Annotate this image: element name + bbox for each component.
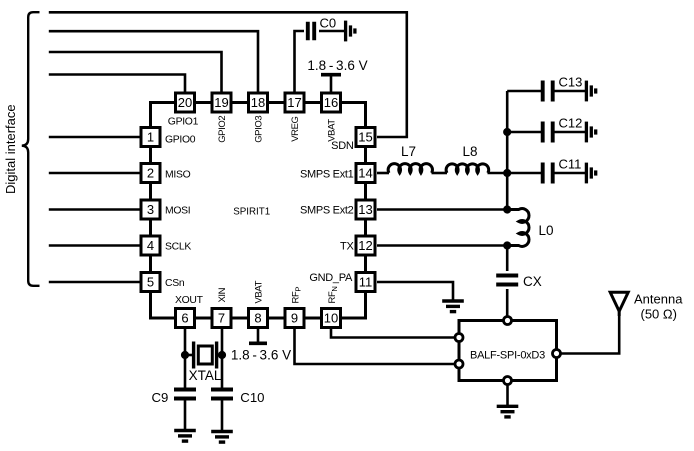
wire L0 bottom to CX <box>506 246 509 272</box>
svg-text:C13: C13 <box>559 75 583 90</box>
svg-text:4: 4 <box>147 238 154 253</box>
pin 17 <box>285 93 304 112</box>
svg-text:GPIO3: GPIO3 <box>253 116 264 143</box>
svg-text:GPIO0: GPIO0 <box>165 135 196 146</box>
wire pin 17 VREG up to C0 <box>295 31 305 92</box>
wire C13 branch <box>507 90 541 93</box>
pin 16 <box>322 93 341 112</box>
wire C11 to ground <box>554 172 586 175</box>
wire C12 to ground <box>554 131 586 134</box>
svg-text:C10: C10 <box>240 390 264 405</box>
junction spine / TX / L0 bottom <box>503 241 511 249</box>
pin 20 <box>176 93 195 112</box>
svg-text:10: 10 <box>324 311 338 326</box>
junction spine / C11 / L7-L8 <box>503 169 511 177</box>
wire L8 to spine junction <box>488 172 508 175</box>
pin 15 <box>356 128 375 147</box>
svg-text:CX: CX <box>523 274 542 289</box>
junction spine / SMPS Ext2 / L0 top <box>503 205 511 213</box>
pin 10 <box>322 309 341 328</box>
balun pin input 1 (upper left) <box>455 334 463 342</box>
svg-text:GPIO2: GPIO2 <box>217 116 228 143</box>
pin 3 <box>141 200 160 219</box>
svg-text:6: 6 <box>181 311 188 326</box>
ground at C12 <box>586 122 595 143</box>
svg-text:Antenna: Antenna <box>634 292 683 307</box>
svg-text:CSn: CSn <box>165 278 185 289</box>
svg-text:C9: C9 <box>151 390 168 405</box>
svg-text:C0: C0 <box>320 16 337 31</box>
svg-text:8: 8 <box>254 311 261 326</box>
ground at C11 <box>586 163 595 184</box>
svg-text:17: 17 <box>287 95 301 110</box>
wire pin 14 SMPS Ext1 to L7 <box>377 172 389 175</box>
wire spine vertical C13 to L0 top <box>506 91 509 210</box>
wire pin 10 RFN to balun upper input <box>331 329 454 338</box>
svg-text:VREG: VREG <box>290 116 301 141</box>
svg-text:3: 3 <box>147 202 154 217</box>
pin 13 <box>356 200 375 219</box>
svg-text:16: 16 <box>324 95 338 110</box>
wire C13 to ground <box>554 90 586 93</box>
wire XTAL left stub <box>185 354 192 357</box>
svg-text:12: 12 <box>358 238 372 253</box>
svg-text:11: 11 <box>359 275 373 290</box>
svg-text:14: 14 <box>358 166 372 181</box>
wire between L7 and L8 <box>432 172 448 175</box>
supply bar 1.8-3.6V at pin 8 <box>249 341 267 345</box>
wire pin 6 XOUT down to C9 <box>184 329 187 388</box>
svg-text:20: 20 <box>178 95 192 110</box>
svg-text:9: 9 <box>291 311 298 326</box>
junction spine / C12 <box>503 128 511 136</box>
ground at C9 <box>174 431 196 442</box>
ground at balun <box>497 406 519 417</box>
wire C12 branch <box>507 131 541 134</box>
wire pin 8 VBAT down to supply bar <box>257 329 260 342</box>
wire C9 to ground <box>184 401 187 430</box>
svg-text:18: 18 <box>251 95 265 110</box>
svg-text:19: 19 <box>214 95 228 110</box>
wire pin 13 SMPS Ext2 to L0 top junction <box>377 208 507 211</box>
svg-text:15: 15 <box>358 130 372 145</box>
IC U1 SPIRIT1 outline <box>151 103 366 319</box>
junction XTAL right / XIN <box>218 351 226 359</box>
antenna symbol <box>610 292 628 316</box>
pin 9 <box>285 309 304 328</box>
capacitor C11 <box>543 163 553 184</box>
pin 4 <box>141 236 160 255</box>
pin 11 <box>356 273 375 292</box>
wire CX to balun input <box>506 289 509 316</box>
svg-text:1.8 - 3.6 V: 1.8 - 3.6 V <box>307 58 367 73</box>
wire pin 16 VBAT up to supply bar <box>330 75 333 92</box>
ground at C13 <box>586 81 595 102</box>
wire pin 11 GND_PA to ground <box>377 282 453 300</box>
svg-text:MOSI: MOSI <box>165 206 190 217</box>
svg-text:XIN: XIN <box>217 287 228 302</box>
svg-text:RFN: RFN <box>327 286 339 303</box>
capacitor C9 <box>174 390 196 399</box>
svg-text:BALF-SPI-0xD3: BALF-SPI-0xD3 <box>470 350 545 362</box>
wire C10 to ground <box>221 401 224 431</box>
svg-text:Digital interface: Digital interface <box>3 104 18 194</box>
ground at C0 <box>346 21 355 42</box>
wire SCLK bus line to pin 4 <box>49 244 140 247</box>
wire CSn bus line to pin 5 <box>49 281 140 284</box>
svg-text:MISO: MISO <box>165 170 191 181</box>
crystal XTAL <box>194 342 217 369</box>
wire pin 9 RFP to balun lower input <box>295 329 455 364</box>
pin 6 <box>176 309 195 328</box>
pin 8 <box>249 309 268 328</box>
balun U2 BALF-SPI-0xD3 box <box>459 321 557 381</box>
svg-text:1.8 - 3.6 V: 1.8 - 3.6 V <box>231 348 291 363</box>
wire MISO bus line to pin 2 <box>49 172 140 175</box>
svg-text:TX: TX <box>340 241 354 253</box>
wire MOSI bus line to pin 3 <box>49 208 140 211</box>
capacitor C13 <box>543 81 553 102</box>
svg-text:SMPS Ext2: SMPS Ext2 <box>300 205 354 217</box>
ground at C10 <box>211 432 233 443</box>
svg-text:GPIO1: GPIO1 <box>168 117 199 128</box>
wire XTAL right stub <box>218 354 222 357</box>
inductor L7 <box>388 164 432 173</box>
pin 14 <box>356 164 375 183</box>
svg-text:1: 1 <box>147 130 154 145</box>
inductor L0 <box>507 209 529 247</box>
svg-text:RFP: RFP <box>290 287 302 304</box>
svg-text:5: 5 <box>147 275 154 290</box>
wire pin 7 XIN down to C10 <box>221 329 224 388</box>
svg-text:SPIRIT1: SPIRIT1 <box>233 207 270 218</box>
junction XTAL left / XOUT <box>181 351 189 359</box>
supply bar 1.8-3.6V at pin 16 <box>321 73 341 77</box>
wire GPIO3 bus line to pin 18 <box>49 31 258 91</box>
svg-text:(50 Ω): (50 Ω) <box>641 307 677 322</box>
wire balun ground pin to ground <box>506 386 509 406</box>
capacitor CX <box>496 276 518 285</box>
capacitor C12 <box>543 122 553 143</box>
digital interface brace <box>22 12 40 286</box>
capacitor C10 <box>211 390 233 399</box>
svg-text:GND_PA: GND_PA <box>309 272 353 284</box>
svg-text:L0: L0 <box>539 223 554 238</box>
svg-text:C11: C11 <box>559 157 582 172</box>
ground at GND_PA <box>442 301 464 312</box>
svg-text:7: 7 <box>218 311 225 326</box>
inductor L8 <box>446 164 489 173</box>
balun pin ground (bottom) <box>504 377 512 385</box>
svg-text:13: 13 <box>358 202 372 217</box>
pin 19 <box>212 93 231 112</box>
svg-text:VBAT: VBAT <box>253 280 264 303</box>
balun pin unbalanced-CX (top) <box>504 317 512 325</box>
wire GPIO1 bus line to pin 20 <box>49 75 185 92</box>
wire balun output to antenna <box>561 311 620 354</box>
svg-text:VBAT: VBAT <box>326 119 337 142</box>
svg-text:L8: L8 <box>462 144 477 159</box>
wire GPIO0 bus line to pin 1 <box>49 136 140 139</box>
svg-text:L7: L7 <box>401 144 416 159</box>
wire pin 12 TX to L0 bottom junction <box>377 244 507 247</box>
svg-text:SCLK: SCLK <box>165 242 191 253</box>
pin 12 <box>356 236 375 255</box>
svg-text:XOUT: XOUT <box>175 295 204 306</box>
balun pin antenna output (right) <box>553 350 561 358</box>
wire GPIO2 bus line to pin 19 <box>49 52 222 92</box>
capacitor C0 <box>308 22 314 41</box>
wire SDN bus line (top) from interface bracket to right vertical <box>49 12 407 137</box>
wire C0 to ground <box>319 30 346 33</box>
balun pin input 2 (lower left) <box>455 360 463 368</box>
pin 1 <box>141 128 160 147</box>
svg-text:XTAL: XTAL <box>189 368 222 383</box>
pin 5 <box>141 273 160 292</box>
pin 7 <box>212 309 231 328</box>
pin 2 <box>141 164 160 183</box>
svg-text:SMPS Ext1: SMPS Ext1 <box>300 169 354 181</box>
svg-text:C12: C12 <box>559 116 583 131</box>
pin 18 <box>249 93 268 112</box>
svg-text:2: 2 <box>147 166 154 181</box>
wire C11 branch <box>507 172 541 175</box>
